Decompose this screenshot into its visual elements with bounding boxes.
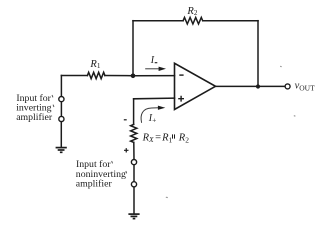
label RX = R1 || R2 <box>142 132 190 144</box>
op-amp U1 <box>175 63 216 109</box>
wire top feedback left segment <box>133 20 183 22</box>
svg-text:I: I <box>150 55 155 66</box>
polarity plus below RX <box>124 148 129 152</box>
svg-text:amplifier: amplifier <box>16 112 53 123</box>
ground inverting input <box>56 148 67 153</box>
terminal inverting lower <box>59 116 64 121</box>
svg-text:R2: R2 <box>178 132 189 144</box>
wire between noninverting terminals <box>133 165 135 182</box>
op-amp plus pin sign <box>178 96 184 102</box>
wire RX to noninverting terminal <box>133 142 135 159</box>
ground noninverting input <box>128 214 139 219</box>
wire op-amp output <box>216 85 286 87</box>
op-amp minus pin sign <box>179 74 183 76</box>
polarity minus above RX <box>124 119 127 121</box>
svg-text:I+: I+ <box>148 113 157 125</box>
resistor R2 <box>183 17 203 24</box>
wire feedback right vertical <box>257 21 259 87</box>
svg-text:RX: RX <box>142 132 154 144</box>
wire feedback left vertical <box>132 21 134 76</box>
svg-text:=: = <box>155 132 161 143</box>
wire noninverting terminal to ground <box>133 187 135 214</box>
svg-text:R1: R1 <box>89 59 100 70</box>
wire inverting input vertical <box>60 76 62 97</box>
terminal noninverting lower <box>131 182 136 187</box>
wire inverting input left segment <box>61 75 87 77</box>
terminal output vout <box>285 84 290 89</box>
wire minus node to op-amp <box>133 75 175 77</box>
wire between inverting terminals <box>60 102 62 117</box>
wire noninverting vertical to RX <box>133 99 135 125</box>
speck artifacts <box>166 66 295 197</box>
resistor RX <box>131 124 137 142</box>
current arrow I+ (curved) <box>141 106 165 123</box>
wire inverting terminal to ground <box>60 122 62 148</box>
wire noninverting input horizontal <box>134 97 175 100</box>
svg-text:R2: R2 <box>186 6 197 17</box>
svg-text:R1: R1 <box>161 132 172 144</box>
wire R1 to minus node <box>105 75 133 77</box>
svg-text:vOUT: vOUT <box>295 81 316 93</box>
resistor R1 <box>87 72 105 78</box>
node output junction <box>256 84 260 88</box>
node minus junction <box>131 74 136 79</box>
wire top feedback right segment <box>203 20 258 22</box>
terminal inverting upper <box>59 97 64 102</box>
current arrow I- <box>145 67 166 71</box>
svg-text:amplifier: amplifier <box>76 179 113 190</box>
terminal noninverting upper <box>131 160 136 165</box>
